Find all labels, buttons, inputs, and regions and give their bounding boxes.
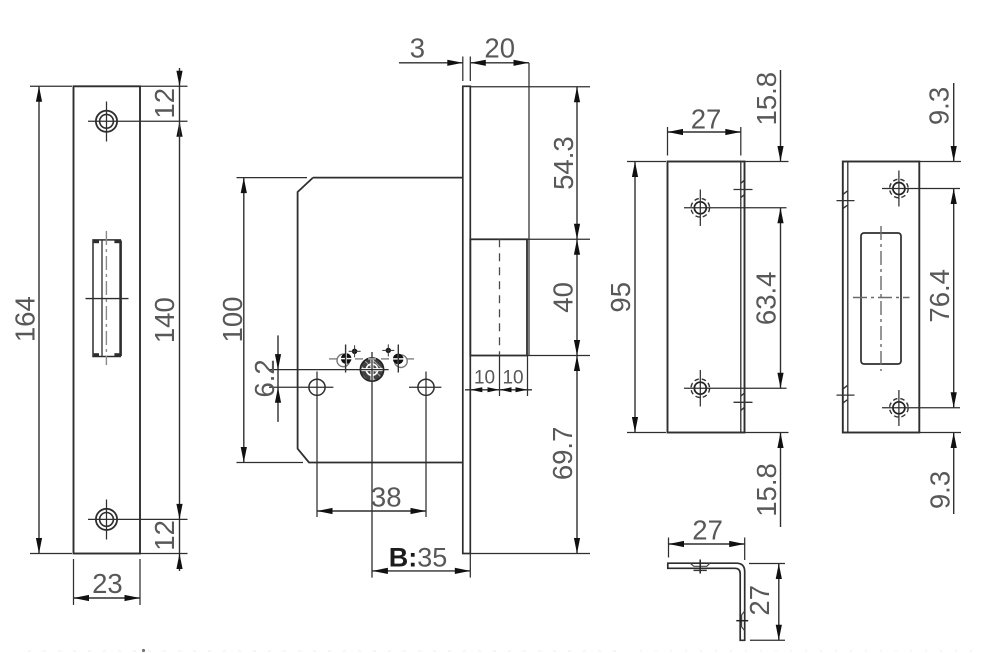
svg-text:27: 27 bbox=[691, 103, 722, 134]
dim 27 extension lines bbox=[668, 127, 741, 156]
faceplate bottom screw hole bbox=[96, 509, 117, 530]
faceplate strip side view bbox=[463, 86, 471, 553]
dim 100 arrows bbox=[241, 178, 247, 463]
dim 38 label bbox=[371, 482, 402, 513]
dim 12 top extension bbox=[140, 85, 188, 87]
dim 140 label bbox=[149, 297, 180, 343]
svg-text:100: 100 bbox=[217, 297, 248, 343]
bracket dim 27 line bbox=[669, 543, 745, 545]
dim 6.2 label bbox=[249, 359, 280, 397]
dim 140 line bbox=[179, 121, 181, 519]
svg-text:10: 10 bbox=[474, 368, 495, 389]
dim 12 top arrows bbox=[176, 71, 182, 137]
faceplate bolt slot bbox=[93, 240, 121, 357]
right fixing hole centerlines bbox=[409, 372, 441, 518]
dim 12 bottom line bbox=[179, 519, 181, 571]
bracket top countersink bbox=[690, 560, 709, 574]
dim 6.2 line bbox=[277, 335, 279, 422]
svg-text:23: 23 bbox=[92, 568, 123, 599]
strike front bottom hole bbox=[890, 399, 909, 418]
bolt dashed centerline bbox=[499, 239, 501, 355]
dim 95 arrows bbox=[632, 162, 638, 433]
svg-text:12: 12 bbox=[149, 520, 180, 551]
dim 95 extension lines bbox=[627, 162, 666, 433]
dim 23 line bbox=[74, 597, 141, 599]
strip bottom extension line bbox=[470, 553, 590, 555]
dim 20 arrows bbox=[470, 60, 529, 66]
pin marker dashed centerline bbox=[329, 358, 414, 360]
bracket dim 27 arrows bbox=[669, 541, 745, 547]
strike front top hole centerlines bbox=[882, 171, 960, 207]
strike plate upper break mark bbox=[734, 180, 753, 198]
dim 38 arrows bbox=[317, 508, 426, 514]
dim 15.8 top extension bbox=[745, 161, 789, 163]
dim 10 10 extension bbox=[470, 356, 527, 397]
svg-text:40: 40 bbox=[548, 282, 579, 313]
dim 10 10 line bbox=[465, 389, 532, 391]
lock case outline bbox=[298, 178, 463, 463]
dim 40 label bbox=[548, 282, 579, 313]
dim 12 top label bbox=[149, 88, 180, 119]
dim chain line right bbox=[576, 87, 578, 554]
latch slot vertical centerline bbox=[880, 226, 882, 371]
dim 100 label bbox=[217, 297, 248, 343]
strike front top hole bbox=[890, 179, 909, 198]
dim 54.3 arrows bbox=[574, 87, 580, 240]
left fixing hole centerlines bbox=[303, 372, 334, 518]
strike front lower break mark bbox=[837, 386, 855, 404]
right small pin dot bbox=[382, 344, 394, 356]
dim 3 leader line bbox=[399, 62, 463, 64]
left fixing hole bbox=[309, 379, 325, 395]
dim 23 label bbox=[92, 568, 123, 599]
dim 95 line bbox=[634, 162, 636, 433]
strike front upper break mark bbox=[837, 191, 855, 209]
dim 12 top line bbox=[179, 68, 181, 121]
svg-text:69.7: 69.7 bbox=[547, 427, 578, 481]
strike plate top hole bbox=[691, 199, 710, 218]
svg-text:63.4: 63.4 bbox=[751, 272, 782, 326]
dim 27 line bbox=[668, 131, 741, 133]
svg-text:20: 20 bbox=[484, 33, 515, 64]
left pin vertical centerline bbox=[345, 345, 347, 373]
dim 76.4 label bbox=[924, 269, 955, 323]
faceplate front view outline bbox=[74, 86, 141, 553]
strike plate front outline bbox=[843, 162, 920, 433]
dim 12 bottom arrows bbox=[176, 554, 182, 570]
dim 9.3 top label bbox=[924, 87, 955, 125]
dim 95 label bbox=[605, 282, 636, 313]
bracket dim 27 right arrows bbox=[776, 564, 782, 641]
strike front fold line bbox=[847, 162, 849, 433]
dim 15.8 bottom label bbox=[751, 463, 782, 517]
left pin open circle bbox=[337, 354, 350, 367]
svg-text:76.4: 76.4 bbox=[924, 269, 955, 323]
svg-text:9.3: 9.3 bbox=[924, 87, 955, 125]
svg-text:9.3: 9.3 bbox=[925, 471, 956, 509]
follower hub knurled disc bbox=[356, 352, 389, 389]
dim 76.4 arrows bbox=[951, 189, 957, 408]
dim 164 line bbox=[38, 86, 40, 553]
dim 20 extension lines bbox=[463, 57, 471, 82]
dim B35 arrows bbox=[372, 568, 470, 574]
dim 12 bottom extension bbox=[140, 553, 188, 555]
dim 54.3 label bbox=[548, 136, 579, 190]
faceplate top screw hole bbox=[96, 111, 117, 132]
svg-text:15.8: 15.8 bbox=[751, 72, 782, 126]
bolt top extension line bbox=[527, 238, 590, 240]
dim 40 arrows bbox=[574, 239, 580, 355]
dim 23 extension lines bbox=[74, 559, 141, 605]
svg-text:95: 95 bbox=[605, 282, 636, 313]
dim B35 label bbox=[389, 543, 448, 573]
dim 140 arrows bbox=[176, 504, 182, 520]
strike plate lower break mark bbox=[734, 393, 753, 411]
dim 9.3 top arrow bbox=[951, 146, 957, 162]
dim 63.4 label bbox=[751, 272, 782, 326]
angle bracket outline bbox=[668, 563, 745, 640]
svg-text:6.2: 6.2 bbox=[249, 359, 280, 397]
right pin open circle bbox=[395, 355, 408, 368]
strip top extension line bbox=[470, 86, 590, 88]
dim 164 arrows bbox=[36, 86, 42, 553]
dim 100 line bbox=[243, 178, 245, 463]
dim 63.4 arrows bbox=[777, 208, 783, 388]
faceplate top hole centerlines bbox=[88, 102, 188, 142]
bolt right face line bbox=[528, 63, 530, 356]
dim 100 extension lines bbox=[237, 178, 308, 463]
bracket side countersink bbox=[736, 611, 748, 630]
dim 9.3 top line bbox=[953, 83, 955, 162]
dim 3 arrow bbox=[447, 60, 463, 66]
dim 63.4 line bbox=[780, 208, 782, 388]
dim 9.3 bottom line bbox=[953, 433, 955, 515]
strike plate side outline bbox=[668, 162, 745, 433]
dim 23 arrows bbox=[74, 595, 141, 601]
faint cropped text row at bottom bbox=[28, 649, 985, 652]
svg-text:164: 164 bbox=[10, 296, 41, 342]
dim 6.2 arrows bbox=[275, 354, 281, 403]
dim 27 label bbox=[691, 103, 722, 134]
svg-text:10: 10 bbox=[502, 368, 523, 389]
left small pin dot bbox=[349, 345, 361, 357]
dim 27 arrows bbox=[668, 129, 741, 135]
svg-text:12: 12 bbox=[149, 88, 180, 119]
dim 9.3 top extension bbox=[919, 161, 961, 163]
bolt centerline extension bbox=[499, 356, 501, 397]
dim 12 bottom label bbox=[149, 520, 180, 551]
dim 15.8 top label bbox=[751, 72, 782, 126]
dim B35 extension bbox=[469, 554, 471, 578]
bracket dim 27 right extension lines bbox=[749, 564, 785, 641]
dim 20 line bbox=[470, 62, 529, 64]
dim 9.3 bottom arrow bbox=[951, 433, 957, 449]
slot horizontal centerline bbox=[86, 298, 129, 300]
latch slot horizontal centerline bbox=[853, 297, 910, 299]
dim 20 label bbox=[484, 33, 515, 64]
right pin filled marker bbox=[392, 353, 404, 365]
follower vertical centerline bbox=[371, 352, 373, 578]
strike front latch slot bbox=[861, 233, 901, 364]
dim 15.8 top arrow bbox=[777, 146, 783, 162]
right pin vertical centerline bbox=[397, 345, 399, 373]
svg-text:38: 38 bbox=[371, 482, 402, 513]
dim 15.8 top line bbox=[780, 70, 782, 162]
bolt bottom extension line bbox=[527, 355, 590, 357]
dim 76.4 line bbox=[953, 189, 955, 408]
dim 164 label bbox=[10, 296, 41, 342]
right fixing hole bbox=[418, 379, 434, 395]
dim 38 line bbox=[317, 510, 426, 512]
left pin filled marker bbox=[340, 353, 352, 365]
bolt side view bbox=[470, 239, 527, 355]
dim 69.7 arrows bbox=[574, 356, 580, 554]
dim 9.3 bottom label bbox=[925, 471, 956, 509]
svg-text:3: 3 bbox=[410, 33, 425, 64]
dim 15.8 bottom extension bbox=[745, 432, 789, 434]
strike front bottom hole centerlines bbox=[882, 390, 960, 426]
faceplate bottom hole centerlines bbox=[88, 500, 188, 540]
svg-text:54.3: 54.3 bbox=[548, 136, 579, 190]
svg-text:140: 140 bbox=[149, 297, 180, 343]
strike plate top hole centerlines bbox=[684, 190, 787, 227]
dim 15.8 bottom arrow bbox=[777, 433, 783, 449]
slot vertical centerline bbox=[105, 231, 107, 365]
dim 3 label bbox=[410, 33, 425, 64]
svg-text:27: 27 bbox=[692, 514, 723, 545]
dim 69.7 label bbox=[547, 427, 578, 481]
dim B35 line bbox=[372, 570, 470, 572]
strike plate fold line bbox=[740, 162, 742, 433]
bracket dim 27 label bbox=[692, 514, 723, 545]
dim 10 10 arrows bbox=[470, 387, 527, 392]
bracket dim 27 right line bbox=[778, 564, 780, 641]
svg-text:15.8: 15.8 bbox=[751, 463, 782, 517]
dim 10 10 labels bbox=[474, 368, 524, 389]
dim 15.8 bottom line bbox=[780, 433, 782, 528]
dim 9.3 bottom extension bbox=[919, 432, 961, 434]
dim 164 extension lines bbox=[30, 86, 72, 553]
strike plate bottom hole centerlines bbox=[684, 370, 787, 407]
strike plate bottom hole bbox=[691, 379, 710, 398]
svg-text:27: 27 bbox=[744, 585, 775, 616]
svg-text:B:35: B:35 bbox=[389, 543, 448, 573]
bracket dim 27 right label bbox=[744, 585, 775, 616]
follower horizontal centerline bbox=[269, 369, 389, 371]
bracket dim 27 extension lines bbox=[669, 538, 745, 561]
dim 6.2 extension bbox=[269, 386, 303, 388]
